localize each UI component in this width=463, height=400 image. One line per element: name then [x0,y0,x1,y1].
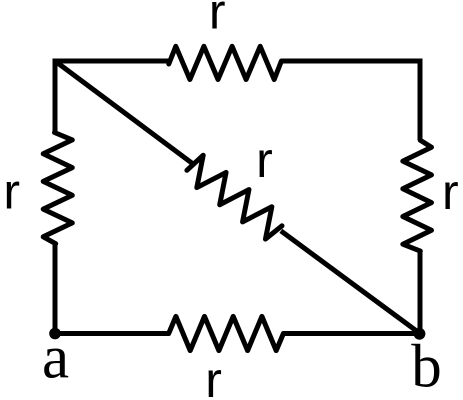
svg-text:r: r [442,164,459,220]
svg-text:r: r [256,132,273,188]
svg-text:b: b [411,334,442,400]
svg-text:a: a [42,325,69,392]
svg-text:r: r [205,352,222,400]
svg-text:r: r [3,164,20,220]
svg-text:r: r [209,0,226,39]
